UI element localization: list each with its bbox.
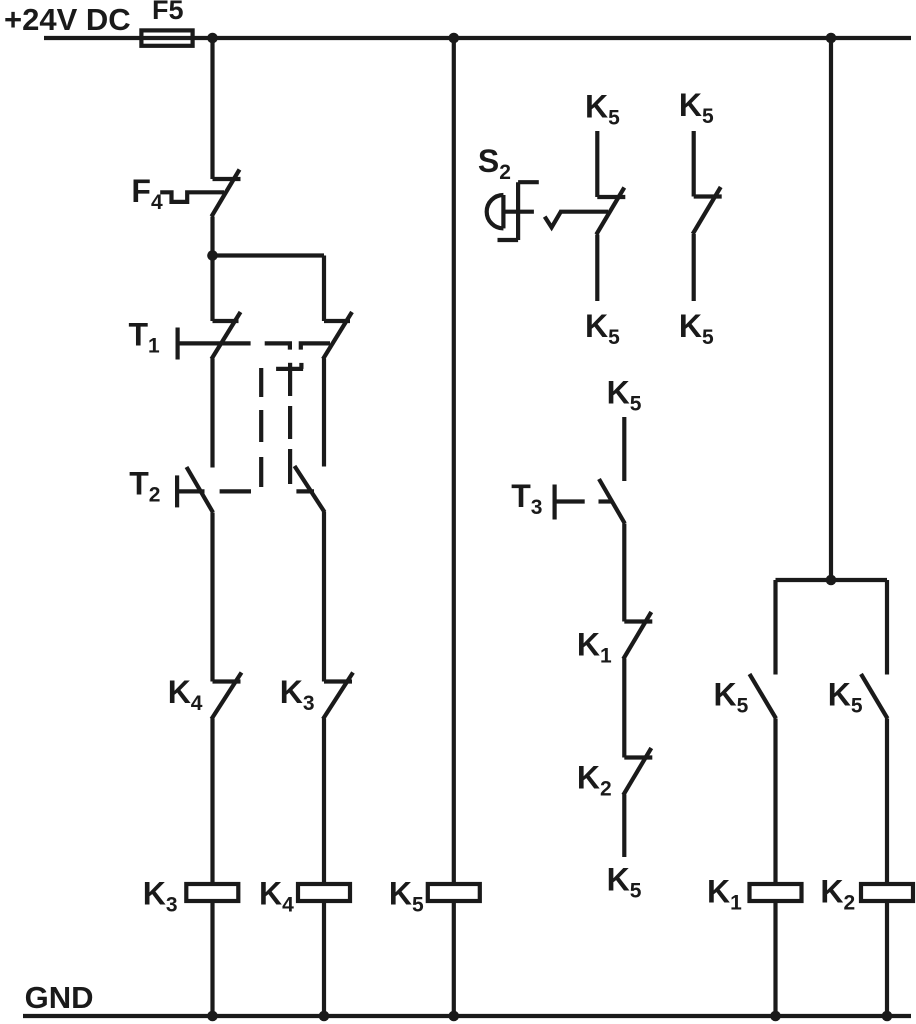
svg-text:K5: K5 xyxy=(714,677,749,718)
svg-text:K4: K4 xyxy=(259,875,294,916)
svg-text:K3: K3 xyxy=(280,674,315,715)
svg-text:T3: T3 xyxy=(511,478,542,519)
svg-text:K5: K5 xyxy=(585,308,620,349)
svg-text:T2: T2 xyxy=(129,465,160,506)
svg-text:K2: K2 xyxy=(577,759,612,800)
svg-text:S2: S2 xyxy=(478,143,511,184)
svg-text:K5: K5 xyxy=(607,861,642,902)
svg-text:K1: K1 xyxy=(577,627,612,668)
svg-text:GND: GND xyxy=(25,980,94,1015)
svg-text:K5: K5 xyxy=(585,88,620,129)
svg-text:K5: K5 xyxy=(828,677,863,718)
svg-text:K5: K5 xyxy=(607,374,642,415)
svg-text:K5: K5 xyxy=(679,87,714,128)
svg-text:K4: K4 xyxy=(168,674,203,715)
svg-text:K5: K5 xyxy=(679,308,714,349)
svg-text:K1: K1 xyxy=(707,874,742,915)
svg-text:F4: F4 xyxy=(131,173,163,214)
svg-text:F5: F5 xyxy=(152,0,184,25)
svg-text:+24V DC: +24V DC xyxy=(4,2,131,37)
svg-text:K2: K2 xyxy=(820,874,855,915)
svg-text:T1: T1 xyxy=(129,317,161,358)
svg-text:K3: K3 xyxy=(143,875,178,916)
svg-text:K5: K5 xyxy=(389,875,424,916)
